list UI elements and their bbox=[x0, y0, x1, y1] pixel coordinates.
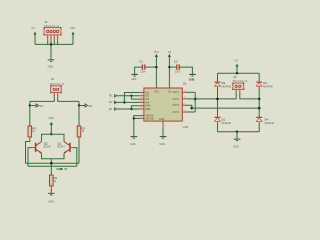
svg-text:OUT3: OUT3 bbox=[173, 104, 180, 107]
power VS (left of J2) bbox=[31, 27, 36, 34]
node C1/VCC bbox=[155, 66, 157, 68]
wire J1 pin2 bbox=[58, 97, 79, 102]
power VSS (right of J2) bbox=[70, 27, 75, 34]
wire SENSB bbox=[134, 117, 141, 119]
svg-text:D1: D1 bbox=[222, 117, 226, 121]
wire left column to R3 bbox=[29, 101, 31, 126]
U1 ref label bbox=[183, 79, 195, 86]
svg-text:W2: W2 bbox=[88, 105, 92, 108]
svg-text:2: 2 bbox=[241, 93, 243, 95]
resistor R2 bbox=[77, 126, 85, 137]
node right rail / line B bbox=[258, 107, 261, 110]
node W2 branch bbox=[123, 101, 125, 103]
svg-text:4: 4 bbox=[56, 37, 58, 39]
svg-text:VS: VS bbox=[235, 60, 239, 63]
wire J3 pin2 bbox=[240, 92, 259, 99]
wire emitter center drop bbox=[50, 159, 52, 175]
svg-text:TBLOCK-I2: TBLOCK-I2 bbox=[233, 80, 248, 83]
svg-text:100n: 100n bbox=[140, 71, 146, 74]
svg-text:EN: EN bbox=[109, 108, 113, 111]
svg-text:GND: GND bbox=[233, 146, 239, 149]
ground (below J2) bbox=[48, 60, 55, 69]
svg-text:U1: U1 bbox=[183, 82, 187, 86]
svg-text:OUT2: OUT2 bbox=[173, 98, 180, 101]
wire R1 to ground bbox=[50, 186, 52, 193]
power VS (bridge) bbox=[235, 60, 239, 74]
node VS tee bbox=[236, 72, 238, 74]
node left label tap bbox=[29, 104, 31, 106]
svg-text:MUR440: MUR440 bbox=[222, 86, 232, 89]
svg-text:W1: W1 bbox=[109, 95, 113, 98]
wire Q2 base drop bbox=[28, 148, 33, 167]
ground (bridge) bbox=[233, 139, 240, 149]
wire W2 to IN4 bbox=[117, 101, 140, 103]
svg-text:ENB: ENB bbox=[145, 108, 150, 111]
svg-text:VCC: VCC bbox=[154, 51, 159, 54]
connector J2 label bbox=[44, 20, 60, 28]
svg-text:8: 8 bbox=[164, 126, 166, 128]
wire C2 right to ground bbox=[180, 67, 193, 74]
node W1 branch bbox=[130, 95, 132, 97]
ground (below R1) bbox=[48, 193, 55, 203]
wire emitter rail bbox=[42, 153, 65, 159]
node right rail / pin2 line bbox=[258, 98, 261, 101]
R3 bottom stub bbox=[29, 137, 31, 140]
node left rail / line A bbox=[216, 98, 219, 101]
svg-text:HB: HB bbox=[64, 168, 68, 171]
wire Q1 base drop bbox=[73, 148, 77, 167]
IC U1 pin stubs top bbox=[156, 86, 172, 89]
terminal EN bbox=[109, 107, 117, 111]
node EN branch bbox=[130, 108, 132, 110]
wire J2 rail bbox=[35, 43, 73, 45]
R2 bottom stub bbox=[78, 137, 80, 140]
connector J3 label bbox=[233, 75, 248, 83]
U1 part label bbox=[183, 126, 189, 129]
node bottom rail bbox=[50, 162, 53, 165]
node VCC tee bbox=[50, 133, 52, 135]
svg-text:VS: VS bbox=[168, 51, 172, 54]
wire left riser bbox=[34, 34, 36, 44]
svg-text:1k: 1k bbox=[54, 180, 57, 183]
wire U1 GND pin bbox=[162, 127, 164, 136]
wire bridge left rail bbox=[217, 73, 219, 132]
wire collector rail bbox=[42, 134, 65, 141]
svg-text:GND: GND bbox=[130, 143, 136, 146]
wire OUT1 bbox=[187, 91, 196, 93]
op-amp U1 body (L298) bbox=[144, 88, 182, 121]
svg-text:D2: D2 bbox=[222, 81, 226, 85]
node OUT2 tee bbox=[194, 98, 197, 101]
svg-text:MUR440: MUR440 bbox=[263, 86, 273, 89]
node right label tap bbox=[78, 104, 80, 106]
capacitor C1 bbox=[139, 59, 146, 73]
svg-text:SENSB: SENSB bbox=[145, 117, 154, 120]
wire SENSA bbox=[134, 116, 141, 137]
wire OUT4 bbox=[187, 111, 196, 113]
wire J2 pins to rail bbox=[48, 41, 58, 45]
ground (C2) bbox=[189, 74, 196, 81]
wire bridge top rail bbox=[218, 72, 260, 74]
wire bottom rail B bbox=[28, 165, 77, 167]
svg-text:VSS: VSS bbox=[70, 27, 75, 30]
svg-text:J3: J3 bbox=[233, 75, 236, 79]
wire OUT3 bbox=[187, 105, 192, 108]
wire J1 pin1 bbox=[30, 97, 55, 102]
svg-text:100n: 100n bbox=[175, 71, 181, 74]
wire VS stem to C2 bbox=[169, 66, 176, 68]
wire EN to ENB bbox=[117, 108, 140, 110]
ground (SENS) bbox=[130, 137, 137, 147]
svg-text:GND: GND bbox=[159, 118, 165, 121]
svg-text:MUR440: MUR440 bbox=[265, 122, 275, 125]
resistor R1 bbox=[50, 175, 58, 186]
svg-text:OUT1: OUT1 bbox=[173, 91, 180, 94]
resistor R3 bbox=[28, 126, 36, 137]
wire bridge to ground bbox=[236, 132, 238, 139]
svg-text:VS: VS bbox=[31, 27, 35, 30]
svg-text:VCC: VCC bbox=[49, 117, 54, 120]
diode D4 bbox=[256, 117, 274, 126]
node C2/VS bbox=[168, 66, 170, 68]
power VCC (IC) bbox=[154, 51, 159, 86]
svg-text:GND: GND bbox=[48, 66, 54, 69]
svg-text:C1: C1 bbox=[139, 59, 143, 63]
svg-text:BC547: BC547 bbox=[58, 145, 66, 148]
diode D3 bbox=[256, 81, 273, 89]
ground (U1) bbox=[159, 137, 166, 147]
U1 right pin stubs bbox=[182, 91, 186, 113]
wire C1 right to VCC stem bbox=[145, 66, 156, 68]
svg-text:VS: VS bbox=[168, 91, 172, 94]
power VCC (transistor pair) bbox=[49, 117, 54, 134]
svg-text:BC547: BC547 bbox=[44, 145, 52, 148]
node SENS bbox=[133, 117, 135, 119]
diode D1 bbox=[215, 117, 232, 126]
svg-text:GND: GND bbox=[48, 201, 54, 204]
svg-text:D4: D4 bbox=[265, 117, 269, 121]
wire W1 to IN2 bbox=[117, 95, 140, 97]
wire J3 pin1 bbox=[235, 94, 237, 99]
U1 bottom pin stub bbox=[163, 121, 166, 128]
wire bridge right rail bbox=[258, 73, 260, 132]
J3 pin stubs bbox=[234, 89, 243, 95]
capacitor C2 bbox=[174, 59, 181, 73]
svg-text:MUR440: MUR440 bbox=[222, 122, 232, 125]
wire right riser bbox=[72, 34, 74, 44]
wire right column to R2 bbox=[78, 101, 80, 126]
label HB1 stub bbox=[30, 104, 44, 108]
svg-text:VCC: VCC bbox=[154, 91, 159, 94]
svg-text:GND: GND bbox=[159, 143, 165, 146]
power VS (IC) bbox=[168, 51, 172, 86]
svg-text:D3: D3 bbox=[263, 81, 267, 85]
connector J3 bbox=[232, 83, 244, 90]
svg-text:L298: L298 bbox=[183, 126, 189, 129]
node J2 rail bbox=[50, 43, 53, 46]
wire R2 down bbox=[78, 140, 80, 163]
wire OUT1-OUT4 vertical bbox=[194, 92, 196, 112]
wire C1 left to ground bbox=[135, 67, 142, 74]
wire bottom rail A bbox=[26, 162, 80, 164]
wire J2 to ground bbox=[50, 44, 52, 59]
terminal W1 bbox=[109, 94, 117, 98]
node bottom rail GND tee bbox=[236, 131, 238, 133]
transistor Q2 bbox=[33, 141, 52, 153]
wire line B bbox=[192, 107, 259, 109]
transistor Q1 bbox=[58, 141, 73, 153]
wire R3 jog left bbox=[26, 140, 30, 163]
wire branch to IN1 bbox=[124, 93, 139, 103]
svg-text:GND: GND bbox=[131, 78, 137, 81]
svg-text:J2: J2 bbox=[44, 20, 47, 24]
svg-text:J1: J1 bbox=[51, 77, 54, 81]
wire OUT2 / line A left bbox=[187, 98, 237, 100]
svg-text:OUT4: OUT4 bbox=[173, 111, 180, 114]
U1 left pin stubs bbox=[140, 91, 144, 119]
svg-text:L298: L298 bbox=[189, 79, 195, 82]
svg-text:2: 2 bbox=[59, 95, 61, 97]
wire branch to ENA bbox=[131, 106, 139, 109]
svg-text:C2: C2 bbox=[174, 59, 178, 63]
diode D2 bbox=[215, 81, 232, 89]
svg-text:W2: W2 bbox=[109, 101, 113, 104]
terminal W2 bbox=[109, 101, 117, 105]
ground (C1) bbox=[131, 74, 138, 81]
label HB tap bbox=[56, 168, 67, 171]
connector J2 bbox=[44, 27, 62, 35]
J2 pin stubs bbox=[47, 35, 59, 41]
label HB2 stub bbox=[79, 104, 93, 108]
node OUT3 tee bbox=[191, 107, 194, 110]
wire bridge bottom rail bbox=[218, 131, 260, 133]
wire branch to IN3 bbox=[131, 96, 139, 99]
connector J1 bbox=[50, 85, 62, 93]
J1 pin stubs bbox=[53, 93, 61, 98]
svg-text:W1: W1 bbox=[39, 105, 43, 108]
connector J1 label bbox=[49, 77, 64, 86]
